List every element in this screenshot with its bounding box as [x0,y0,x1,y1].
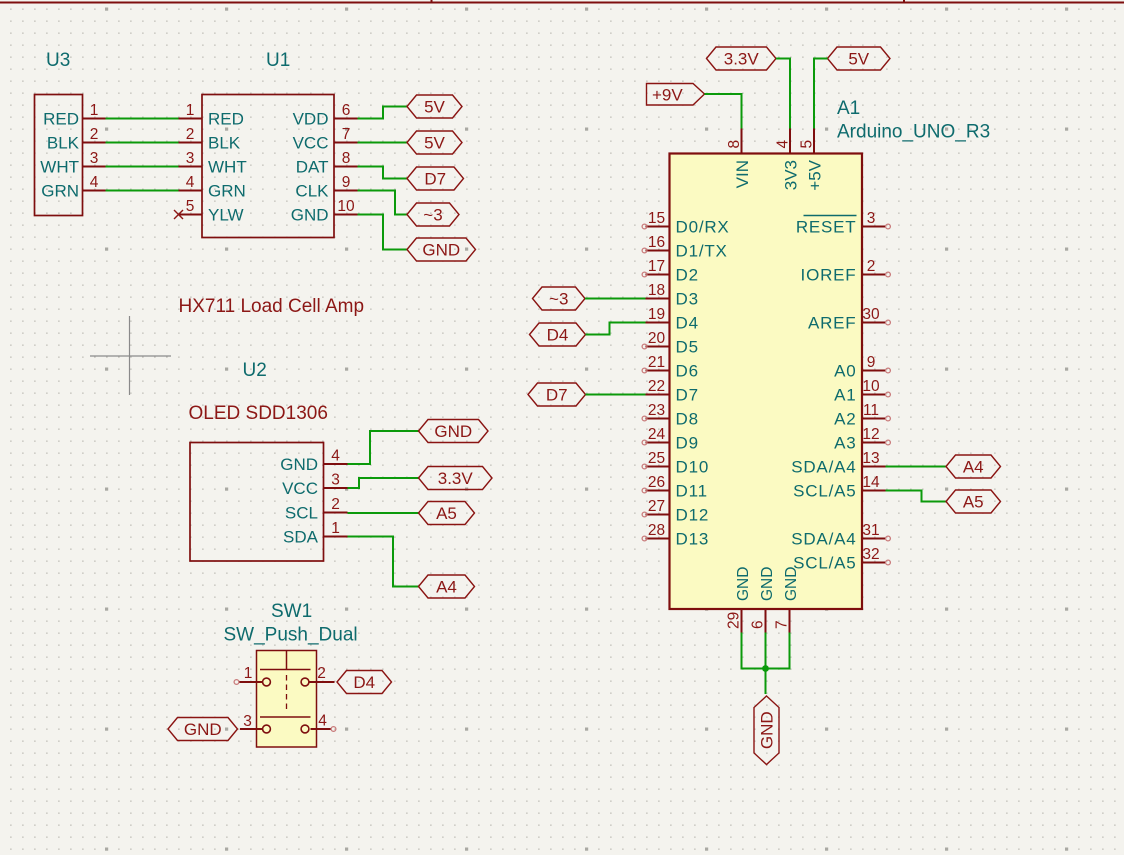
svg-text:+5V: +5V [805,159,824,190]
svg-text:GND: GND [783,567,800,601]
svg-text:D7: D7 [676,386,699,405]
svg-text:GND: GND [280,455,318,474]
SW1 pin 4 [311,713,336,732]
svg-text:RED: RED [43,110,79,129]
A1 pin 6 (GND) bottom [750,567,776,633]
A1 pin 22 (D7) [646,378,699,405]
wire U3.4 to U1.4 (GRN) [106,190,179,192]
U1 pin 10 (GND) [291,198,358,225]
wire 5V to A1 +5V [814,59,828,129]
op-amp U1 HX711 body [202,95,334,238]
svg-text:IOREF: IOREF [801,266,857,285]
net label D7 (A1) [528,383,586,406]
svg-text:19: 19 [648,306,665,323]
svg-text:GND: GND [291,206,329,225]
A1 pin 10 (A1) [834,378,890,405]
U3 pin 4 (GRN) [41,174,105,201]
value OLED SDD1306 [189,403,328,424]
U1 pin 8 (DAT) [296,150,358,177]
wire U2.1 SDA to A4 label [348,537,419,587]
switch SW1 body [257,651,317,748]
svg-text:YLW: YLW [208,206,244,225]
wire A1.14 SCL/A5 to A5 label [886,491,947,502]
svg-text:20: 20 [648,330,666,347]
svg-text:RESET: RESET [796,218,857,237]
svg-text:15: 15 [648,210,665,227]
U1 pin 7 (VCC) [293,126,358,153]
svg-text:1: 1 [186,102,195,119]
A1 pin 14 (SCL/A5) [793,474,885,501]
svg-text:SCL/A5: SCL/A5 [793,554,856,573]
svg-text:D11: D11 [676,482,708,501]
svg-text:25: 25 [648,450,665,467]
power label 5V (top) [828,47,891,70]
wire U3.3 to U1.3 (WHT) [106,166,179,168]
A1 pin 30 (AREF) [808,306,890,333]
svg-text:~3: ~3 [549,290,568,309]
wire U1.9 CLK to ~3 label [358,191,408,215]
svg-text:2: 2 [317,665,326,682]
A1 pin 2 (IOREF) [801,258,891,285]
U2 pin 1 (SDA) [283,520,347,547]
wire 3.3V to A1 3V3 [776,59,790,129]
svg-text:11: 11 [863,402,879,419]
value SW_Push_Dual [224,625,358,646]
wire U3.2 to U1.2 (BLK) [106,142,179,144]
net label ~3 (A1 D3) [533,287,586,310]
svg-text:10: 10 [862,378,880,395]
svg-text:D13: D13 [676,530,710,549]
svg-text:D4: D4 [353,673,375,692]
svg-text:+9V: +9V [652,86,683,105]
wire U1.10 GND to GND label [358,215,408,250]
svg-text:17: 17 [648,258,665,275]
svg-text:SCL/A5: SCL/A5 [793,482,856,501]
reference U1 [266,50,290,71]
wire D7 label to A1.22 D7 [586,394,646,396]
wire U2.4 GND to GND label [348,431,419,464]
wire A1.7 GND down to junction [766,633,790,669]
svg-text:30: 30 [862,306,880,323]
svg-text:18: 18 [648,282,665,299]
svg-text:SCL: SCL [285,504,318,523]
svg-text:10: 10 [337,198,355,215]
svg-text:12: 12 [862,426,879,443]
svg-text:~3: ~3 [423,206,442,225]
reference U3 [46,50,70,71]
svg-text:24: 24 [648,426,666,443]
svg-text:2: 2 [867,258,876,275]
U1 pin 6 (VDD) [293,102,358,129]
U1 pin 5 (YLW) [174,198,244,225]
value HX711 Load Cell Amp [179,296,365,317]
power label 3.3V (top) [707,47,777,70]
U1 pin 1 (RED) [179,102,244,129]
svg-text:A2: A2 [834,410,856,429]
connector U3 body [35,95,83,216]
A1 pin 12 (A3) [834,426,890,453]
svg-text:RED: RED [208,110,244,129]
wire A1.6 GND down to GND label [765,633,767,695]
wire U2.2 SCL to A5 label [348,512,419,514]
U3 pin 1 (RED) [43,102,105,129]
svg-text:A4: A4 [436,578,457,597]
A1 pin 32 (SCL/A5) [793,546,890,573]
svg-text:32: 32 [862,546,879,563]
svg-text:D0/RX: D0/RX [676,218,730,237]
svg-text:GND: GND [735,567,752,601]
svg-text:26: 26 [648,474,665,491]
svg-text:22: 22 [648,378,665,395]
A1 pin 26 (D11) [642,474,708,501]
svg-text:D12: D12 [676,506,710,525]
wire U2.3 VCC to 3.3V label [348,478,419,488]
svg-text:1: 1 [331,520,340,537]
svg-text:GND: GND [422,241,460,260]
A1 pin 23 (D8) [642,402,699,429]
wire A1.29 GND down to junction [742,633,766,669]
SW1 pin 2 [309,665,335,682]
svg-text:21: 21 [648,354,665,371]
svg-text:2: 2 [186,126,195,143]
svg-text:3V3: 3V3 [781,160,800,190]
reference SW1 [271,601,312,622]
svg-text:9: 9 [342,174,351,191]
U2 pin 3 (VCC) [282,472,347,499]
svg-text:9: 9 [867,354,876,371]
A1 pin 28 (D13) [642,522,709,549]
svg-text:SW1: SW1 [271,601,312,622]
svg-text:D7: D7 [546,386,568,405]
svg-text:2: 2 [90,126,99,143]
svg-text:29: 29 [726,612,743,629]
svg-text:2: 2 [331,496,340,513]
net label ~3 [407,203,459,226]
A1 pin 9 (A0) [834,354,890,381]
svg-text:SDA: SDA [283,528,319,547]
svg-text:4: 4 [331,448,340,465]
wire A1.13 SDA/A4 to A4 label [886,466,947,468]
svg-text:A0: A0 [834,362,856,381]
U2 pin 4 (GND) [280,448,347,475]
U2 pin 2 (SCL) [285,496,348,523]
reference A1 [837,98,860,119]
wire ~3 label to A1.18 D3 [585,298,646,300]
svg-text:3: 3 [186,150,195,167]
svg-text:Arduino_UNO_R3: Arduino_UNO_R3 [837,122,990,143]
svg-text:8: 8 [726,140,743,149]
svg-text:D8: D8 [676,410,699,429]
svg-text:GND: GND [758,711,777,749]
svg-text:GND: GND [759,567,776,601]
U3 pin 3 (WHT) [40,150,105,177]
svg-text:SDA/A4: SDA/A4 [791,458,856,477]
ground label GND (below A1) [754,696,779,765]
svg-text:5: 5 [186,198,195,215]
svg-text:5V: 5V [424,98,445,117]
sheet border bottom edge of title frame [0,0,1124,4]
svg-text:16: 16 [648,234,665,251]
svg-text:GND: GND [434,422,472,441]
svg-text:D4: D4 [676,314,699,333]
A1 pin 27 (D12) [642,498,709,525]
svg-text:D2: D2 [676,266,699,285]
svg-text:D6: D6 [676,362,699,381]
wire D4 label to A1.19 D4 [586,323,646,335]
A1 pin 25 (D10) [642,450,709,477]
svg-text:OLED SDD1306: OLED SDD1306 [189,403,328,424]
svg-text:7: 7 [774,620,791,629]
svg-text:1: 1 [244,665,253,682]
U1 pin 4 (GRN) [179,174,246,201]
A1 pin 17 (D2) [642,258,699,285]
svg-text:4: 4 [90,174,99,191]
A1 pin 18 (D3) [646,282,699,309]
svg-text:D10: D10 [676,458,710,477]
svg-text:1: 1 [90,102,99,119]
U1 pin 2 (BLK) [179,126,241,153]
A1 pin 3 (RESET) [796,210,891,237]
net label 5V (lower) [407,131,462,154]
svg-text:D5: D5 [676,338,699,357]
U1 pin 3 (WHT) [179,150,247,177]
svg-text:3: 3 [90,150,99,167]
svg-text:BLK: BLK [47,134,80,153]
svg-text:BLK: BLK [208,134,241,153]
net label D4 (A1) [530,323,586,346]
svg-text:5V: 5V [424,134,445,153]
svg-text:6: 6 [342,102,351,119]
A1 pin 20 (D5) [642,330,699,357]
svg-text:4: 4 [775,140,792,149]
reference U2 [243,360,267,381]
display U2 OLED body [190,443,324,562]
svg-text:4: 4 [186,174,195,191]
svg-text:23: 23 [648,402,665,419]
svg-text:A5: A5 [436,504,457,523]
wire U1.8 DAT to D7 label [358,167,408,179]
A1 pin 8 (VIN) top [726,129,752,189]
svg-text:A1: A1 [834,386,856,405]
svg-text:A1: A1 [837,98,860,119]
net label A4 (A1) [946,455,1001,478]
svg-text:D4: D4 [547,326,569,345]
svg-text:U1: U1 [266,50,290,71]
wire U1.7 VCC to 5V label [358,142,408,144]
MCU board A1 Arduino UNO body [670,154,863,610]
svg-text:CLK: CLK [295,182,329,201]
net label GND (U2) [419,420,489,443]
svg-text:27: 27 [648,498,665,515]
A1 pin 21 (D6) [642,354,699,381]
A1 pin 15 (D0/RX) [642,210,729,237]
svg-text:A3: A3 [834,434,856,453]
svg-text:3: 3 [331,472,340,489]
net label 5V (upper) [407,95,462,118]
svg-text:D9: D9 [676,434,699,453]
net label D7 [407,167,464,190]
wire U1.6 VDD to 5V label [358,107,408,119]
A1 pin 7 (GND) bottom [774,567,800,633]
svg-text:5: 5 [799,140,816,149]
svg-text:D1/TX: D1/TX [676,242,728,261]
svg-text:A4: A4 [963,458,984,477]
A1 pin 29 (GND) bottom [726,567,752,633]
svg-text:A5: A5 [963,493,984,512]
net label 3.3V (U2) [419,467,493,490]
SW1 pin 3 [240,713,263,730]
svg-text:SW_Push_Dual: SW_Push_Dual [224,625,358,646]
svg-text:3: 3 [243,713,252,730]
A1 pin 16 (D1/TX) [642,234,728,261]
net label A5 (U2) [419,502,475,525]
svg-text:7: 7 [342,126,351,143]
svg-text:DAT: DAT [296,158,329,177]
svg-text:VIN: VIN [733,160,752,188]
A1 pin 13 (SDA/A4) [791,450,885,477]
A1 pin 11 (A2) [834,402,890,429]
svg-text:3: 3 [867,210,876,227]
svg-text:AREF: AREF [808,314,857,333]
svg-text:D3: D3 [676,290,699,309]
svg-text:6: 6 [750,620,767,629]
svg-text:U3: U3 [46,50,70,71]
net label GND (U1) [407,238,476,261]
wire +9V to A1 VIN [705,94,742,129]
svg-text:HX711 Load Cell Amp: HX711 Load Cell Amp [179,296,365,317]
crosshair origin marker [90,316,171,395]
svg-text:D7: D7 [424,170,446,189]
U1 pin 9 (CLK) [295,174,357,201]
net label A4 (U2) [419,575,475,598]
svg-text:4: 4 [318,713,327,730]
net label A5 (A1) [946,490,1001,513]
svg-text:WHT: WHT [208,158,247,177]
svg-text:3.3V: 3.3V [724,50,760,69]
A1 pin 24 (D9) [642,426,699,453]
svg-text:VDD: VDD [293,110,329,129]
wire U3.1 to U1.1 (RED) [106,118,179,120]
svg-text:GND: GND [184,720,222,739]
A1 pin 5 (+5V) top [799,129,825,191]
net label D4 (SW1) [337,671,392,694]
svg-text:SDA/A4: SDA/A4 [791,530,856,549]
U3 pin 2 (BLK) [47,126,106,153]
svg-text:5V: 5V [848,50,869,69]
A1 pin 31 (SDA/A4) [791,522,890,549]
A1 pin 19 (D4) [646,306,699,333]
svg-text:VCC: VCC [282,479,318,498]
svg-text:GRN: GRN [41,182,79,201]
svg-text:U2: U2 [243,360,267,381]
svg-text:WHT: WHT [40,158,79,177]
junction GND net [762,665,769,672]
svg-text:3.3V: 3.3V [438,469,474,488]
svg-text:28: 28 [648,522,665,539]
svg-text:31: 31 [862,522,879,539]
svg-text:VCC: VCC [293,134,329,153]
power label +9V [647,84,705,106]
svg-text:8: 8 [342,150,351,167]
svg-text:14: 14 [862,474,880,491]
value Arduino_UNO_R3 [837,122,990,143]
net label GND (SW1) [168,718,238,741]
SW1 pin 1 [234,665,262,684]
A1 pin 4 (3V3) top [775,129,801,191]
svg-text:GRN: GRN [208,182,246,201]
svg-text:13: 13 [862,450,879,467]
